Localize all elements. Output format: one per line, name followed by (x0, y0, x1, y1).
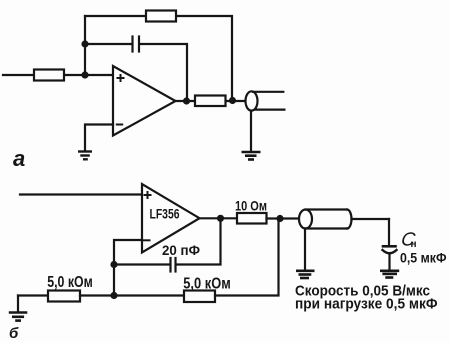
svg-text:а: а (13, 146, 25, 171)
svg-text:0,5 мкФ: 0,5 мкФ (400, 250, 447, 266)
svg-text:20 пФ: 20 пФ (162, 242, 200, 258)
svg-text:LF356: LF356 (150, 206, 180, 222)
svg-text:5,0 кОм: 5,0 кОм (47, 274, 93, 291)
svg-text:при нагрузке 0,5 мкФ: при нагрузке 0,5 мкФ (295, 296, 438, 313)
svg-text:5,0 кОм: 5,0 кОм (183, 276, 231, 293)
svg-text:б: б (9, 325, 19, 342)
svg-text:н: н (411, 239, 417, 250)
svg-text:10 Ом: 10 Ом (235, 198, 267, 214)
